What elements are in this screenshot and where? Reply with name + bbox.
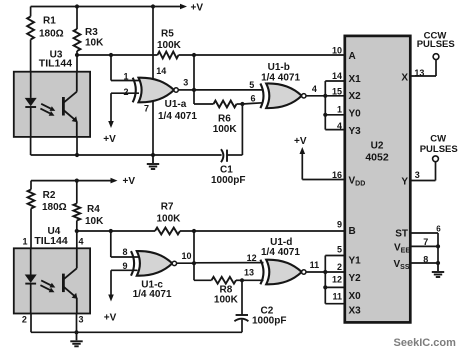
svg-text:180Ω: 180Ω	[42, 202, 67, 213]
svg-text:14: 14	[156, 66, 166, 76]
svg-text:4: 4	[337, 121, 342, 131]
svg-text:8: 8	[122, 247, 127, 257]
svg-text:180Ω: 180Ω	[39, 28, 64, 39]
svg-text:X0: X0	[349, 291, 362, 302]
svg-text:9: 9	[122, 261, 127, 271]
svg-text:R5: R5	[161, 28, 174, 39]
svg-text:2: 2	[123, 87, 128, 97]
svg-text:2: 2	[337, 262, 342, 272]
svg-text:R6: R6	[218, 114, 231, 125]
svg-text:Y1: Y1	[349, 255, 362, 266]
svg-text:1: 1	[337, 104, 342, 114]
svg-text:SeekIC.com: SeekIC.com	[394, 337, 457, 349]
svg-text:TIL144: TIL144	[34, 235, 67, 247]
svg-text:100K: 100K	[213, 124, 238, 135]
svg-text:R2: R2	[43, 190, 56, 201]
svg-text:8: 8	[423, 255, 428, 265]
svg-text:PULSES: PULSES	[417, 39, 455, 50]
svg-text:12: 12	[332, 275, 342, 285]
svg-text:A: A	[349, 51, 356, 62]
svg-text:1/4 4071: 1/4 4071	[133, 289, 172, 300]
svg-text:5: 5	[249, 80, 254, 90]
svg-text:B: B	[349, 226, 356, 237]
svg-text:10K: 10K	[85, 38, 104, 49]
svg-text:15: 15	[332, 87, 342, 97]
svg-text:U2: U2	[371, 141, 384, 152]
svg-text:R7: R7	[161, 201, 174, 212]
svg-text:3: 3	[415, 170, 420, 180]
svg-text:1: 1	[22, 237, 27, 247]
svg-text:TIL144: TIL144	[39, 58, 72, 70]
svg-text:ST: ST	[395, 228, 408, 239]
svg-text:13: 13	[414, 68, 424, 78]
svg-text:14: 14	[332, 71, 342, 81]
svg-text:11: 11	[332, 292, 342, 302]
svg-text:+V: +V	[294, 136, 307, 147]
svg-text:U1-b: U1-b	[268, 62, 290, 73]
svg-text:3: 3	[183, 78, 188, 88]
svg-text:Y: Y	[401, 177, 408, 188]
svg-text:+V: +V	[191, 3, 204, 14]
svg-text:100K: 100K	[157, 214, 182, 225]
svg-text:1/4 4071: 1/4 4071	[158, 111, 197, 122]
svg-text:3: 3	[78, 315, 83, 325]
svg-text:9: 9	[337, 220, 342, 230]
svg-text:R3: R3	[85, 27, 98, 38]
svg-text:7: 7	[423, 237, 428, 247]
svg-text:10K: 10K	[85, 216, 104, 227]
svg-text:X2: X2	[349, 91, 362, 102]
svg-text:10: 10	[332, 45, 342, 55]
svg-text:1000pF: 1000pF	[211, 175, 245, 186]
svg-text:PULSES: PULSES	[420, 144, 458, 155]
svg-text:R4: R4	[87, 204, 100, 215]
svg-text:+V: +V	[103, 134, 116, 145]
svg-text:100K: 100K	[157, 40, 182, 51]
svg-text:100K: 100K	[214, 294, 239, 305]
svg-text:1000pF: 1000pF	[252, 315, 286, 326]
svg-text:X3: X3	[349, 306, 362, 317]
svg-text:2: 2	[22, 315, 27, 325]
svg-text:1/4 4071: 1/4 4071	[261, 72, 300, 83]
svg-text:C1: C1	[220, 165, 233, 176]
svg-text:4: 4	[312, 84, 317, 94]
svg-text:13: 13	[244, 267, 254, 277]
svg-text:7: 7	[144, 103, 149, 113]
svg-text:Y0: Y0	[349, 109, 362, 120]
svg-text:+V: +V	[123, 176, 136, 187]
svg-text:5: 5	[337, 244, 342, 254]
svg-text:6: 6	[436, 224, 441, 233]
svg-text:6: 6	[250, 93, 255, 103]
svg-text:16: 16	[332, 170, 342, 180]
svg-text:10: 10	[181, 251, 191, 261]
svg-text:1/4 4071: 1/4 4071	[261, 247, 300, 258]
svg-text:4052: 4052	[365, 152, 389, 164]
svg-text:1: 1	[123, 71, 128, 81]
svg-text:4: 4	[78, 237, 83, 247]
svg-text:X: X	[401, 73, 408, 84]
svg-text:11: 11	[310, 260, 320, 270]
svg-text:12: 12	[247, 253, 257, 263]
svg-text:Y3: Y3	[349, 126, 362, 137]
svg-text:Y2: Y2	[349, 273, 362, 284]
svg-text:X1: X1	[349, 74, 362, 85]
svg-text:U1-a: U1-a	[165, 99, 187, 110]
svg-text:+V: +V	[104, 312, 117, 323]
svg-text:R1: R1	[43, 15, 56, 26]
